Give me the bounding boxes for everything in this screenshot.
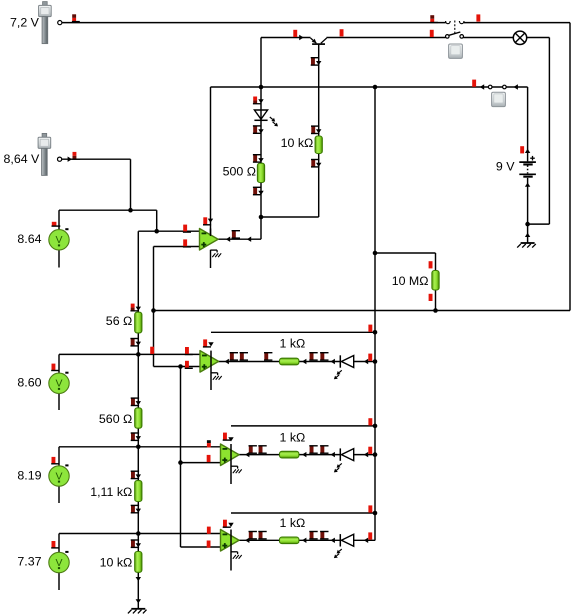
svg-text:7,2 V: 7,2 V xyxy=(10,15,40,29)
svg-text:10 kΩ: 10 kΩ xyxy=(281,136,314,150)
svg-text:9 V: 9 V xyxy=(496,159,515,173)
svg-text:1 kΩ: 1 kΩ xyxy=(280,337,306,351)
svg-text:7.37: 7.37 xyxy=(17,555,41,569)
svg-text:10 MΩ: 10 MΩ xyxy=(392,274,429,288)
svg-text:560 Ω: 560 Ω xyxy=(99,412,132,426)
svg-text:8,64 V: 8,64 V xyxy=(4,152,41,166)
svg-text:1,11 kΩ: 1,11 kΩ xyxy=(90,485,132,499)
svg-text:8.64: 8.64 xyxy=(17,232,41,246)
svg-text:10 kΩ: 10 kΩ xyxy=(100,555,133,569)
svg-text:1 kΩ: 1 kΩ xyxy=(280,431,306,445)
svg-text:8.19: 8.19 xyxy=(17,468,41,482)
svg-text:8.60: 8.60 xyxy=(17,376,41,390)
svg-text:56 Ω: 56 Ω xyxy=(106,314,133,328)
svg-text:1 kΩ: 1 kΩ xyxy=(280,516,306,530)
svg-text:500 Ω: 500 Ω xyxy=(223,165,256,179)
